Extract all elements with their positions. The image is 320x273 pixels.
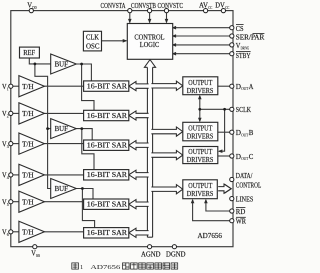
svg-text:STBY: STBY [236,52,251,60]
svg-text:BUF: BUF [55,185,68,193]
svg-text:16-BIT SAR: 16-BIT SAR [87,172,128,179]
svg-text:AGND: AGND [141,251,161,259]
svg-text:16-BIT SAR: 16-BIT SAR [87,113,128,120]
svg-text:CONVSTB: CONVSTB [131,2,156,10]
svg-text:CC: CC [208,5,212,10]
svg-text:16-BIT SAR: 16-BIT SAR [87,230,128,237]
svg-text:AD7656: AD7656 [91,264,122,271]
svg-text:CONVSTC: CONVSTC [158,2,184,10]
svg-text:CONVSTA: CONVSTA [101,2,126,10]
svg-text:DRIVERS: DRIVERS [187,156,214,164]
svg-text:T/H: T/H [22,110,33,118]
svg-text:1: 1 [7,86,9,91]
svg-text:DRIVERS: DRIVERS [187,132,214,140]
svg-text:CS: CS [236,25,244,33]
svg-text:T/H: T/H [22,83,33,91]
svg-text:T/H: T/H [22,140,33,148]
svg-text:DATA/: DATA/ [236,172,253,180]
svg-text:16-BIT SAR: 16-BIT SAR [87,143,128,150]
svg-text:REF: REF [23,49,35,57]
svg-text:OUTPUT: OUTPUT [188,148,213,156]
svg-text:B: B [249,129,254,137]
svg-text:16-BIT SAR: 16-BIT SAR [87,202,128,209]
svg-text:LINES: LINES [236,196,254,204]
svg-text:OUTPUT: OUTPUT [188,182,213,190]
svg-text:1: 1 [80,264,83,271]
svg-text:T/H: T/H [22,198,33,206]
svg-text:OUT: OUT [241,156,248,161]
svg-text:DV: DV [215,2,225,10]
svg-text:DGND: DGND [166,251,186,259]
svg-text:AV: AV [199,2,208,10]
svg-text:C: C [249,153,254,161]
svg-text:CONTROL: CONTROL [236,182,261,190]
svg-text:BUF: BUF [55,61,68,69]
svg-text:AD7656: AD7656 [198,232,223,240]
svg-text:OUTPUT: OUTPUT [188,124,213,132]
svg-text:DRIVE: DRIVE [241,45,250,50]
svg-text:OUTPUT: OUTPUT [188,79,213,87]
svg-text:16-BIT SAR: 16-BIT SAR [87,83,128,90]
svg-text:2: 2 [7,114,9,119]
svg-text:A: A [249,83,254,91]
svg-text:OUT: OUT [241,132,248,137]
svg-text:T/H: T/H [22,172,33,180]
svg-text:BUF: BUF [55,125,68,133]
svg-text:SER/PAR: SER/PAR [236,34,265,42]
svg-text:SCLK: SCLK [236,106,251,114]
svg-text:T/H: T/H [22,229,33,237]
svg-text:OUT: OUT [241,86,248,91]
svg-text:OSC: OSC [86,43,100,51]
svg-text:CC: CC [225,5,229,10]
svg-text:SS: SS [36,253,40,258]
svg-text:DRIVERS: DRIVERS [187,190,214,198]
svg-text:CLK: CLK [86,34,99,42]
svg-text:DD: DD [32,5,37,10]
svg-text:DRIVERS: DRIVERS [187,87,214,95]
svg-text:LOGIC: LOGIC [140,41,160,49]
svg-text:RD: RD [236,208,246,216]
svg-text:WR: WR [236,218,246,226]
